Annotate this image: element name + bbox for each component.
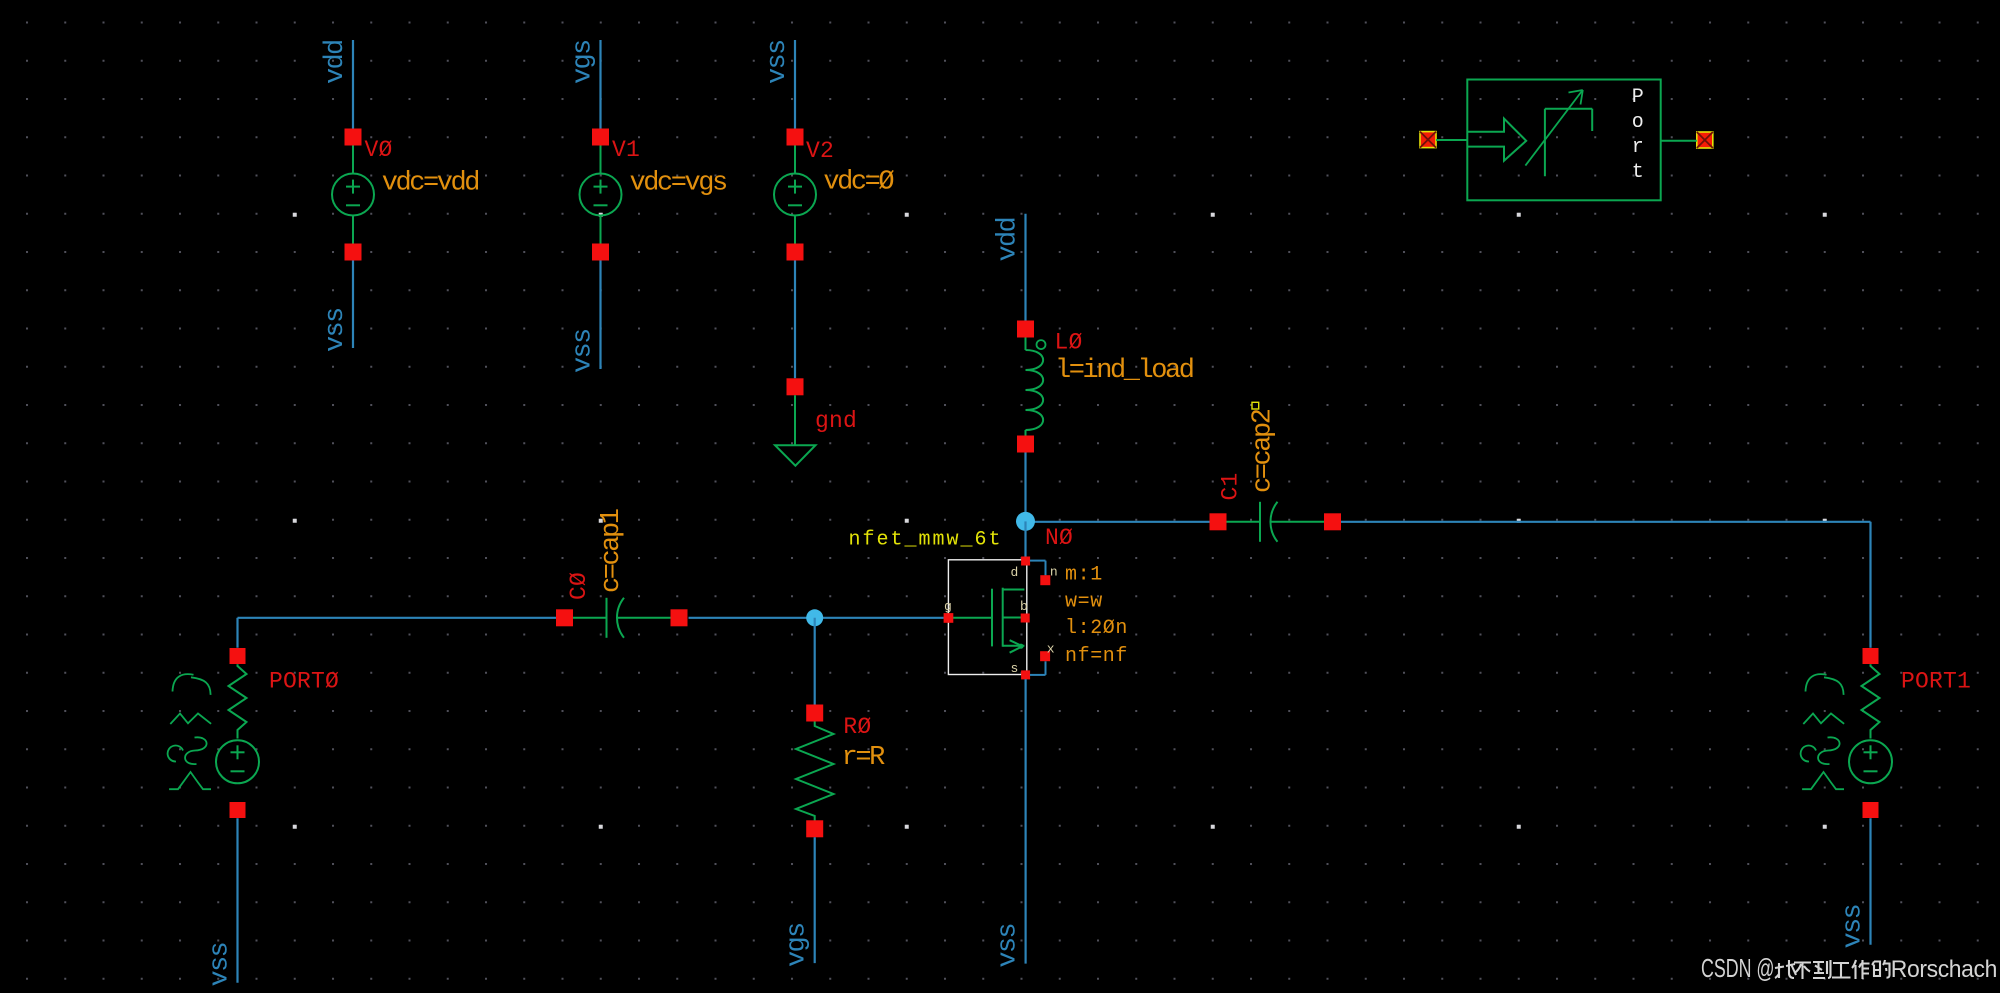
svg-text:d: d (1011, 565, 1019, 580)
wire PORT0 to vss (236, 818, 238, 983)
svg-text:c=cap1: c=cap1 (597, 509, 627, 593)
wire PORT1 to vss (1869, 818, 1871, 945)
svg-text:vgs: vgs (783, 923, 813, 967)
wire source to vss (1024, 679, 1026, 963)
port PORT0 (230, 648, 246, 664)
pin x (1040, 651, 1050, 661)
right pin (X square) (1697, 132, 1713, 148)
svg-text:PORTØ: PORTØ (269, 669, 339, 695)
svg-text:NØ: NØ (1045, 525, 1073, 551)
wire V0 to vss (352, 261, 354, 349)
svg-text:m:1: m:1 (1065, 564, 1103, 587)
wire vdd to L0 (1024, 214, 1026, 321)
svg-text:x: x (1047, 642, 1055, 657)
svg-text:Rorschach: Rorschach (1891, 956, 1997, 983)
svg-text:l=ind_load: l=ind_load (1055, 356, 1193, 386)
voltage source V0 (345, 129, 362, 146)
svg-text:nf=nf: nf=nf (1065, 645, 1128, 668)
svg-text:vdd: vdd (321, 40, 351, 84)
resistor R0 (806, 705, 823, 722)
svg-text:vss: vss (321, 308, 351, 352)
svg-text:vss: vss (763, 40, 793, 84)
nfet symbol (953, 617, 992, 619)
transistor M0 nfet_mmw_6t selection box (948, 560, 1026, 675)
node N0 solder dot (1016, 512, 1035, 531)
node gate solder dot (806, 609, 823, 626)
svg-text:c=cap2: c=cap2 (1249, 409, 1279, 493)
wire PORT0 to C0 (238, 617, 565, 619)
capacitor C1 (1210, 513, 1227, 530)
wire C0 to gate node (689, 617, 944, 619)
wire node N0 to C1 (1026, 521, 1210, 523)
ground gnd (787, 378, 804, 395)
svg-text:r=R: r=R (842, 743, 886, 773)
svg-text:vdc=vdd: vdc=vdd (382, 168, 479, 198)
wire C1 to PORT1 corner (1341, 521, 1871, 523)
svg-text:VØ: VØ (365, 137, 393, 163)
svg-text:o: o (1632, 111, 1644, 134)
wire node N0 to drain (1024, 521, 1026, 557)
svg-text:CØ: CØ (566, 572, 592, 600)
bracket glyph (1544, 109, 1546, 177)
svg-text:w=w: w=w (1065, 591, 1103, 614)
svg-text:V2: V2 (806, 138, 834, 164)
wire V2 top net (794, 40, 796, 129)
svg-text:vdc=Ø: vdc=Ø (823, 168, 894, 198)
svg-text:g: g (944, 599, 952, 614)
wire V2 to gnd (794, 261, 796, 379)
wire node to R0 (814, 618, 816, 705)
svg-text:gnd: gnd (815, 408, 857, 434)
svg-text:PORT1: PORT1 (1901, 669, 1971, 695)
svg-text:V1: V1 (612, 137, 640, 163)
svg-text:LØ: LØ (1055, 329, 1083, 355)
port decorations PORT1 (1806, 674, 1844, 695)
arrow glyph (1467, 119, 1526, 161)
svg-text:CSDN @: CSDN @ (1701, 953, 1775, 983)
diagonal arrow (1525, 91, 1582, 166)
pin n (1040, 575, 1050, 585)
pin stubs (1436, 139, 1467, 141)
wire stub source to x pin (1030, 674, 1046, 676)
svg-text:C1: C1 (1218, 472, 1244, 500)
svg-text:s: s (1011, 661, 1019, 676)
voltage source V1 (592, 129, 609, 146)
svg-text:RØ: RØ (843, 714, 871, 740)
voltage source V2 (787, 129, 804, 146)
svg-text:vdd: vdd (994, 218, 1024, 262)
svg-text:vss: vss (206, 943, 236, 987)
svg-text:n: n (1050, 564, 1058, 579)
wire L0 to node N0 (1024, 453, 1026, 522)
svg-text:r: r (1632, 136, 1644, 159)
pin b (1021, 614, 1030, 623)
svg-text:nfet_mmw_6t: nfet_mmw_6t (849, 529, 1003, 552)
capacitor C0 (556, 609, 573, 626)
symbol box Port (1467, 80, 1660, 201)
inductor L0 (1017, 321, 1034, 338)
svg-text:t: t (1632, 161, 1644, 184)
left pin (X square) (1420, 132, 1436, 148)
source arrow (1010, 640, 1023, 646)
wire R0 to vgs (814, 837, 816, 963)
svg-text:b: b (1020, 599, 1028, 614)
wire V0 top net (352, 40, 354, 129)
wire V1 to vss (599, 261, 601, 370)
svg-text:l:2Øn: l:2Øn (1065, 617, 1128, 640)
label origin marker (yellow square) (1252, 402, 1259, 409)
svg-text:vss: vss (1839, 905, 1869, 949)
wire V1 top net (599, 40, 601, 129)
pin s (1021, 670, 1030, 679)
port decorations PORT0 (173, 674, 211, 695)
pin g (944, 613, 954, 623)
wire stub drain to n pin (1030, 560, 1046, 562)
svg-text:vss: vss (994, 924, 1024, 968)
svg-text:P: P (1632, 86, 1644, 109)
pin d (1021, 557, 1030, 566)
major grid dots (293, 213, 297, 217)
svg-text:vgs: vgs (569, 40, 599, 84)
svg-text:vdc=vgs: vdc=vgs (630, 168, 727, 198)
port PORT1 (1863, 648, 1879, 664)
svg-text:vss: vss (569, 329, 599, 373)
